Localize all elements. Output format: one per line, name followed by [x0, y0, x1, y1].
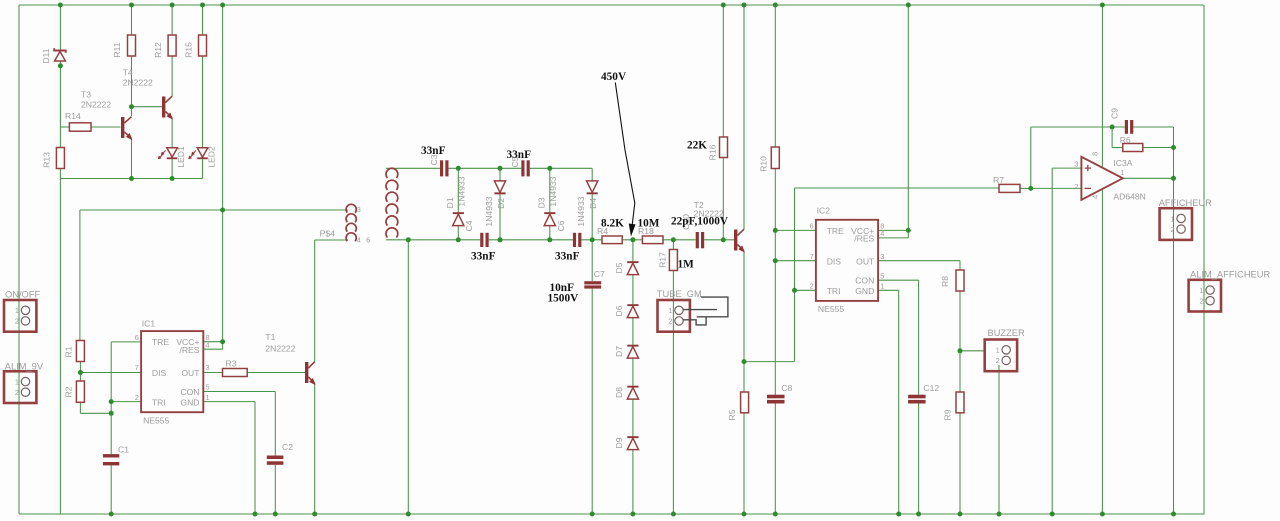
svg-text:8.2K: 8.2K [601, 218, 624, 230]
junction top bus node x202.5 [200, 3, 205, 8]
wire IC2 TRI wire [795, 289, 816, 291]
wire R8 to buzzer node [959, 291, 961, 351]
resistor R7 [993, 175, 1020, 192]
junction top bus node x172.1 [170, 3, 175, 8]
resistor R3 [223, 358, 248, 376]
wire R6 right lead [1143, 147, 1174, 149]
wire buzzer pin2 drop [998, 365, 1000, 514]
wire R9 to gnd bus [959, 413, 961, 514]
junction IC2 TRE node [773, 228, 778, 233]
connector ALIM_AFFICHEUR [1189, 269, 1271, 311]
svg-text:2: 2 [15, 388, 19, 397]
svg-text:450V: 450V [601, 71, 627, 83]
wire R2 to C1 node [80, 412, 111, 414]
wire R12 bottom to T4 collector [171, 56, 173, 96]
wire VCC top bus [19, 4, 1204, 6]
wire R13 bottom to rail [59, 169, 61, 179]
svg-text:6: 6 [366, 235, 370, 244]
svg-text:NE555: NE555 [143, 416, 169, 426]
svg-text:GND: GND [180, 397, 199, 407]
junction gnd bus node x1052.2 [1050, 512, 1055, 517]
svg-text:NE555: NE555 [818, 304, 844, 314]
svg-text:CON: CON [855, 276, 874, 286]
junction R17 node [671, 237, 676, 242]
wire +in riser to gnd [1051, 168, 1053, 514]
svg-text:1: 1 [668, 306, 672, 315]
junction top bus node x908.3 [906, 3, 911, 8]
junction out node [1171, 176, 1176, 181]
junction top bus node x1102.4 [1100, 3, 1105, 8]
junction R1/R2/DIS node [78, 370, 83, 375]
svg-text:R7: R7 [993, 175, 1004, 185]
svg-text:2: 2 [1199, 297, 1203, 306]
svg-text:DIS: DIS [152, 368, 167, 378]
svg-text:1N4933: 1N4933 [484, 196, 494, 226]
junction gnd bus node x314.7 [312, 512, 317, 517]
junction IC2 TRI node [792, 288, 797, 293]
capacitor C10 22pF [681, 214, 704, 248]
capacitor C1 10nF [103, 445, 129, 466]
svg-text:LED2: LED2 [207, 146, 217, 168]
resistor R11 [112, 35, 136, 58]
capacitor C9 [1110, 108, 1134, 134]
wire LED1 to rail [171, 159, 173, 178]
op-amp IC3A AD648N [1074, 152, 1146, 202]
wire feedback riser [1030, 127, 1032, 188]
junction T2 emitter node [742, 359, 747, 364]
svg-text:6: 6 [135, 333, 139, 342]
junction gnd bus node x960 [958, 512, 963, 517]
wire R16 top riser [722, 5, 724, 137]
svg-text:10M: 10M [638, 218, 660, 230]
wire C8 to gnd bus [774, 403, 776, 514]
svg-text:R8: R8 [940, 276, 950, 287]
svg-text:1N4933: 1N4933 [456, 176, 466, 206]
svg-text:C12: C12 [923, 383, 939, 393]
svg-text:1: 1 [880, 282, 884, 291]
junction top bus node x60.4 [58, 3, 63, 8]
svg-text:3: 3 [1074, 159, 1078, 168]
svg-text:TRI: TRI [152, 397, 166, 407]
svg-text:8: 8 [1090, 152, 1099, 156]
svg-text:4: 4 [880, 229, 884, 238]
resistor R17 [658, 250, 678, 271]
svg-text:TRE: TRE [827, 226, 844, 236]
svg-text:CON: CON [180, 387, 199, 397]
svg-text:R6: R6 [1120, 135, 1131, 145]
wire IC2 GND riser [898, 290, 900, 514]
wire R12 top [171, 5, 173, 35]
svg-text:2N2222: 2N2222 [123, 77, 153, 87]
wire D11 anode riser [59, 5, 61, 50]
wire sec bottom rail b [489, 239, 573, 241]
svg-text:R5: R5 [727, 409, 737, 420]
svg-text:IC1: IC1 [142, 318, 156, 328]
svg-text:DIS: DIS [827, 257, 842, 267]
svg-text:22pF,1000V: 22pF,1000V [671, 216, 729, 228]
junction gnd bus node x1102.4 [1100, 512, 1105, 517]
svg-text:R9: R9 [943, 409, 953, 420]
svg-text:R17: R17 [658, 252, 668, 268]
wire feedback top a [1031, 126, 1125, 128]
junction R6/C9 right node [1171, 145, 1176, 150]
wire R7 right lead [1020, 187, 1031, 189]
wire R14 to T3 base [91, 126, 121, 128]
svg-text:2: 2 [15, 317, 19, 326]
wire IC1 GND wire [203, 401, 255, 403]
svg-text:P$4: P$4 [320, 228, 336, 238]
wire LED emitter rail [60, 178, 202, 180]
wire R14 left lead [60, 126, 69, 128]
wire op-amp out wire [1124, 177, 1174, 179]
wire R3 to T1 base [247, 372, 305, 374]
svg-text:OUT: OUT [181, 368, 200, 378]
junction -in node [1028, 186, 1033, 191]
junction CW node2 [498, 166, 503, 171]
wire R10 top riser [774, 5, 776, 147]
450V pointer arrow [615, 83, 635, 235]
connector AFFICHEUR [1159, 198, 1212, 240]
resistor R6 [1120, 135, 1143, 152]
svg-text:C8: C8 [781, 383, 792, 393]
wire HV chain seg4 [632, 399, 634, 436]
junction gnd bus node x275.3 [273, 512, 278, 517]
svg-text:5: 5 [206, 383, 210, 392]
wire IC2 pin8 wire [878, 229, 908, 231]
wire C7 riser [591, 240, 593, 281]
wire T1 collector to primary [315, 239, 348, 241]
svg-text:TRE: TRE [152, 337, 169, 347]
capacitor C6 33nF [556, 220, 581, 247]
wire IC2 TRE wire [775, 229, 816, 231]
wire CON riser to C12 [918, 280, 920, 395]
wire D1 bottom lead [457, 226, 459, 240]
svg-text:C4: C4 [464, 220, 474, 231]
wire IC2 VCC riser [907, 5, 909, 230]
wire D3 top lead [549, 168, 551, 212]
wire R17 to tube and gnd [672, 271, 674, 515]
svg-text:AFFICHEUR: AFFICHEUR [1159, 198, 1212, 208]
junction IC2 DIS node [773, 258, 778, 263]
svg-text:1: 1 [206, 393, 210, 402]
svg-text:33nF: 33nF [471, 251, 496, 263]
svg-text:3: 3 [206, 363, 210, 372]
wire R16 bottom to base node [722, 158, 724, 240]
svg-text:ON/OFF: ON/OFF [5, 290, 40, 300]
svg-text:/RES: /RES [179, 345, 199, 355]
wire sec gnd riser [407, 240, 409, 514]
diode D1 [445, 176, 466, 225]
junction IC1 VCC node [220, 339, 225, 344]
wire op-amp +in wire [1052, 167, 1081, 169]
resistor R10 [759, 147, 780, 172]
junction TRI node [109, 399, 114, 404]
wire IC2 pin4 wire [878, 237, 908, 239]
junction gnd bus node x632.9 [630, 512, 635, 517]
junction 450V node [630, 237, 635, 242]
wire sec top rail c [530, 167, 592, 169]
wire D2 top lead [499, 168, 501, 181]
wire IC1 DIS wire [80, 372, 141, 374]
junction top bus node x131.5 [129, 3, 134, 8]
wire IC1 CON wire [203, 391, 275, 393]
junction 9V rail node [220, 208, 225, 213]
IC IC2 NE555 [810, 205, 885, 313]
svg-text:R14: R14 [65, 111, 81, 121]
wire 22pF to base node [704, 239, 734, 241]
diode D7 [614, 345, 639, 358]
wire node to R9 [959, 351, 961, 392]
wire GND bottom bus [19, 513, 1205, 515]
svg-text:GND: GND [855, 286, 874, 296]
svg-text:2N2222: 2N2222 [81, 100, 111, 110]
junction HV node C7 [590, 237, 595, 242]
resistor R13 [42, 148, 65, 169]
wire feedback top b [1133, 126, 1173, 128]
wire D4 bottom lead [591, 194, 593, 240]
svg-text:D9: D9 [614, 437, 624, 448]
wire T2 collector riser [743, 5, 745, 229]
capacitor C7 10nF 1500V [584, 269, 605, 289]
zener diode D11 [41, 48, 65, 63]
junction CW node3 [547, 166, 552, 171]
junction gnd bus node x918.6 [916, 512, 921, 517]
wire TRE to DIS [774, 230, 776, 260]
junction T2 base node [721, 237, 726, 242]
capacitor C5 33nF [510, 156, 530, 176]
wire IC2 GND wire [878, 289, 899, 291]
junction top bus node x723.3 [721, 3, 726, 8]
resistor R5 [727, 392, 749, 421]
resistor R8 [940, 270, 964, 291]
geiger tube symbol [683, 297, 728, 325]
svg-text:R16: R16 [708, 144, 718, 160]
svg-text:T3: T3 [81, 90, 91, 100]
svg-text:5: 5 [880, 271, 884, 280]
wire CON riser to C2 [274, 392, 276, 456]
junction gnd bus node x673.4 [671, 512, 676, 517]
LED LED1 [158, 146, 186, 168]
transistor T1 2N2222 [265, 332, 315, 385]
svg-text:4: 4 [1090, 195, 1099, 199]
wire IC2 pin4 riser [907, 230, 909, 238]
svg-text:4: 4 [357, 235, 361, 244]
wire op-amp -in wire [1031, 187, 1082, 189]
wire OUT riser to R8 [959, 261, 961, 270]
junction gnd bus node x111.2 [109, 512, 114, 517]
svg-text:3: 3 [357, 205, 361, 214]
wire T1 emitter to gnd [314, 383, 316, 514]
svg-text:C1: C1 [118, 445, 129, 455]
wire R15 top [202, 5, 204, 35]
junction buzzer node [958, 348, 963, 353]
svg-text:D6: D6 [614, 305, 624, 316]
svg-text:2N2222: 2N2222 [265, 343, 295, 353]
svg-text:TRI: TRI [827, 286, 841, 296]
junction rail node LED1 [170, 176, 175, 181]
capacitor C12 [908, 383, 939, 404]
diode D6 [614, 304, 639, 317]
svg-text:ALIM_AFFICHEUR: ALIM_AFFICHEUR [1190, 269, 1270, 279]
svg-text:D5: D5 [614, 262, 624, 273]
wire sec bottom rail c [581, 239, 602, 241]
svg-text:7: 7 [135, 363, 139, 372]
junction gnd bus node x592.2 [590, 512, 595, 517]
wire C9 right drop [1173, 127, 1175, 148]
svg-text:1: 1 [1120, 168, 1124, 177]
svg-text:IC3A: IC3A [1113, 158, 1132, 168]
capacitor C2 10nF [267, 442, 293, 465]
svg-text:D1: D1 [445, 197, 455, 208]
diode D3 [537, 176, 558, 225]
wire 9V rail drop to R1 [79, 210, 81, 341]
svg-text:R13: R13 [42, 152, 52, 168]
junction CW node1 [456, 166, 461, 171]
svg-text:3: 3 [880, 252, 884, 261]
junction IC2 VCC node [906, 228, 911, 233]
junction gnd bus node x898.7 [896, 512, 901, 517]
wire HV chain seg3 [632, 358, 634, 385]
diode D5 [614, 261, 639, 274]
wire HV chain seg2 [632, 318, 634, 345]
resistor R1 [64, 341, 85, 362]
junction gnd bus node x999 [997, 512, 1002, 517]
wire C12 to gnd bus [918, 403, 920, 514]
capacitor C4 33nF [464, 220, 489, 247]
svg-text:2: 2 [810, 282, 814, 291]
wire T3 emitter riser [131, 139, 133, 179]
svg-text:1M: 1M [678, 259, 695, 271]
wire IC2 DIS wire [775, 260, 816, 262]
wire R18 to R17 node [663, 239, 696, 241]
junction CW node4 [456, 237, 461, 242]
connector ALIM_9V [4, 362, 44, 403]
junction top bus node x775.3 [773, 3, 778, 8]
wire T1 collector riser [314, 240, 316, 362]
wire R15 bottom to LED2 [202, 56, 204, 148]
inductor TR secondary [366, 168, 398, 244]
wire op-amp V- riser [1101, 189, 1103, 514]
junction sec gnd node [406, 237, 411, 242]
svg-text:R2: R2 [64, 386, 74, 397]
resistor R18 [638, 226, 663, 244]
wire HV chain seg0 [632, 240, 634, 261]
wire buzzer pin1 wire [960, 350, 985, 352]
connector TUBE_GM [657, 289, 702, 332]
wire TRI riser [794, 188, 796, 362]
wire R6 left lead [1112, 147, 1123, 149]
svg-text:2: 2 [1170, 225, 1174, 234]
capacitor C3 33nF [429, 154, 449, 176]
wire IC1 VCC riser [222, 5, 224, 342]
svg-text:1N4933: 1N4933 [576, 196, 586, 226]
svg-text:R1: R1 [64, 346, 74, 357]
wire C1 to gnd bus [110, 465, 112, 514]
svg-text:D7: D7 [614, 346, 624, 357]
svg-text:R15: R15 [184, 42, 194, 58]
capacitor C8 [767, 383, 793, 404]
wire sec top rail b [449, 167, 522, 169]
wire sec top rail a [386, 167, 440, 169]
inductor TR primary P$4 [320, 204, 361, 244]
resistor R9 [943, 392, 965, 421]
wire pin6 to TRI riser [110, 342, 112, 454]
svg-text:D2: D2 [496, 198, 506, 209]
wire D2 bottom lead [499, 194, 501, 240]
wire top rail to D4 [591, 168, 593, 181]
svg-text:C6: C6 [556, 220, 566, 231]
resistor R12 [153, 35, 176, 58]
svg-text:R3: R3 [226, 358, 237, 368]
wire C2 to gnd bus [274, 465, 276, 514]
junction gnd bus node x408.3 [406, 512, 411, 517]
svg-text:2: 2 [668, 317, 672, 326]
junction CW node6 [547, 237, 552, 242]
wire R2 bottom corner [79, 402, 81, 413]
wire IC1 GND riser [254, 402, 256, 514]
svg-text:T4: T4 [123, 67, 133, 77]
junction C1 node [109, 411, 114, 416]
svg-text:R12: R12 [153, 42, 163, 58]
junction CW node5 [498, 237, 503, 242]
svg-text:22K: 22K [687, 140, 707, 152]
svg-text:R11: R11 [112, 42, 122, 57]
svg-text:1500V: 1500V [548, 293, 580, 305]
IC IC1 NE555 [135, 318, 210, 425]
junction rail node T3 [129, 176, 134, 181]
resistor R4 [597, 226, 622, 244]
wire IC1 pin4 wire [203, 348, 222, 350]
wire T4 base wire [132, 106, 163, 108]
transistor T2 2N2222 [694, 200, 745, 253]
diode D9 [614, 436, 639, 449]
junction D11 cathode node [58, 63, 63, 68]
transistor T4 2N2222 [123, 67, 173, 119]
svg-text:1: 1 [15, 377, 19, 386]
wire R4 to 450V node [622, 239, 642, 241]
wire 9V rail to transformer [80, 209, 348, 211]
junction gnd bus node x255 [253, 512, 258, 517]
wire ALIM_AFFICHEUR drop [1203, 5, 1205, 514]
wire out to afficheur drop [1173, 148, 1175, 515]
wire sec bottom rail a [386, 239, 480, 241]
svg-text:D11: D11 [41, 48, 51, 63]
svg-text:7: 7 [810, 252, 814, 261]
svg-text:2: 2 [1074, 182, 1078, 191]
LED LED2 [188, 146, 216, 168]
svg-text:TUBE_GM: TUBE_GM [657, 289, 702, 299]
wire R10 to TRE [774, 169, 776, 231]
svg-text:1: 1 [1199, 286, 1203, 295]
svg-text:R10: R10 [759, 156, 769, 172]
wire R11 top [131, 5, 133, 35]
svg-text:D3: D3 [537, 197, 547, 208]
diode D8 [614, 386, 639, 399]
junction gnd bus node x1173.5 [1171, 512, 1176, 517]
svg-text:/RES: /RES [854, 234, 874, 244]
svg-text:C7: C7 [594, 269, 605, 279]
wire HV chain seg1 [632, 275, 634, 304]
svg-text:2: 2 [996, 356, 1000, 365]
wire left supply drop to connectors [18, 5, 20, 514]
svg-text:4: 4 [206, 340, 210, 349]
svg-text:2: 2 [135, 393, 139, 402]
junction gnd bus node x775.3 [773, 512, 778, 517]
wire LED2 to rail [202, 159, 204, 178]
svg-text:1: 1 [1170, 214, 1174, 223]
diode D4 [576, 181, 598, 227]
resistor R15 [184, 35, 207, 58]
